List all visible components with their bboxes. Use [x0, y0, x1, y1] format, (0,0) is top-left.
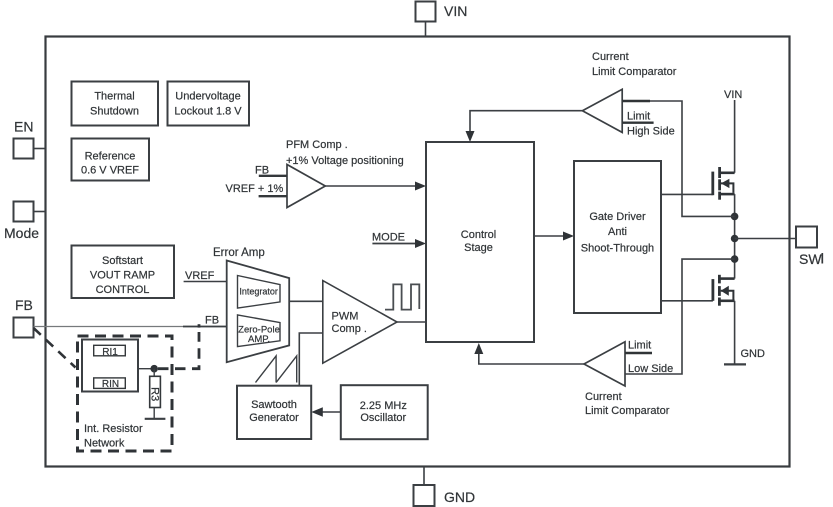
- svg-text:Network: Network: [84, 438, 125, 450]
- wire SW node to SW pin: [735, 238, 796, 240]
- svg-text:Softstart: Softstart: [102, 255, 143, 267]
- box resistor network internal: [82, 340, 138, 392]
- wire Oscillator to Sawtooth Generator: [311, 407, 341, 416]
- svg-text:Current: Current: [592, 51, 629, 63]
- wire Mode pin to boundary: [34, 211, 46, 213]
- svg-text:Anti: Anti: [608, 226, 627, 238]
- transistor low side FET: [713, 275, 735, 306]
- svg-text:Generator: Generator: [249, 412, 299, 424]
- svg-text:EN: EN: [14, 119, 33, 135]
- wire GND pin to boundary: [423, 467, 425, 486]
- svg-text:FB: FB: [205, 315, 219, 327]
- svg-text:Limit Comparator: Limit Comparator: [585, 405, 670, 417]
- svg-text:GND: GND: [741, 348, 766, 360]
- wire EN pin to boundary: [34, 148, 46, 150]
- wire gate driver to high side gate: [661, 193, 713, 195]
- node VREF+1% input of PFM comp: [226, 183, 288, 196]
- pin FB: [14, 297, 34, 338]
- block Thermal Shutdown: [72, 82, 159, 126]
- svg-text:Limit Comparator: Limit Comparator: [592, 66, 677, 78]
- svg-text:VIN: VIN: [444, 3, 467, 19]
- resistor RI1: [94, 345, 126, 358]
- node dot high-side sense: [731, 213, 739, 221]
- svg-text:Reference: Reference: [85, 151, 136, 163]
- svg-text:MODE: MODE: [372, 232, 405, 244]
- node junction dot: [150, 365, 158, 373]
- svg-text:Current: Current: [585, 391, 622, 403]
- wire low side current sense: [625, 259, 735, 374]
- IC boundary box: [46, 37, 790, 467]
- svg-text:Sawtooth: Sawtooth: [251, 399, 297, 411]
- svg-text:Lockout 1.8 V: Lockout 1.8 V: [174, 106, 242, 118]
- waveform square wave symbol: [385, 284, 419, 309]
- block Zero-Pole AMP: [238, 315, 281, 347]
- svg-text:PFM Comp .: PFM Comp .: [286, 139, 348, 151]
- ground (resistor network): [145, 418, 166, 420]
- svg-text:Thermal: Thermal: [94, 91, 134, 103]
- svg-text:Undervoltage: Undervoltage: [175, 91, 240, 103]
- pin EN: [14, 119, 34, 159]
- svg-text:Control: Control: [461, 229, 496, 241]
- svg-text:GND: GND: [444, 489, 475, 505]
- svg-text:Comp .: Comp .: [332, 323, 367, 335]
- pin Mode: [4, 202, 39, 242]
- wire VIN to high side FET drain: [734, 100, 736, 173]
- waveform sawtooth symbol: [256, 356, 297, 383]
- wire gate driver to low side gate: [661, 300, 713, 302]
- block Softstart VOUT RAMP CONTROL: [72, 246, 175, 299]
- svg-text:CONTROL: CONTROL: [96, 284, 150, 296]
- svg-text:AMP.: AMP.: [248, 334, 270, 345]
- svg-text:Error Amp: Error Amp: [213, 247, 265, 259]
- svg-text:VOUT RAMP: VOUT RAMP: [90, 270, 155, 282]
- svg-text:Gate Driver: Gate Driver: [589, 211, 646, 223]
- svg-text:Int. Resistor: Int. Resistor: [84, 423, 143, 435]
- dashed wire FB pin to resistor network: [34, 328, 76, 368]
- comparator Current Limit High Side: [582, 51, 676, 132]
- svg-text:2.25 MHz: 2.25 MHz: [360, 400, 407, 412]
- svg-text:VREF + 1%: VREF + 1%: [226, 183, 284, 195]
- wire high side current sense: [622, 101, 734, 216]
- ground GND (power stage): [724, 348, 765, 364]
- block Control Stage: [426, 142, 534, 342]
- svg-text:Oscillator: Oscillator: [360, 412, 406, 424]
- dashed wire node to FB net: [158, 332, 199, 369]
- wire low side comparator output to Control Stage: [474, 343, 584, 364]
- resistor RIN: [94, 378, 126, 390]
- node Limit input (high side): [622, 111, 675, 138]
- svg-text:VREF: VREF: [185, 270, 215, 282]
- transistor high side FET: [713, 167, 735, 200]
- pin SW: [796, 227, 822, 268]
- op-amp Error Amp: [213, 247, 289, 362]
- wire MODE to Control Stage: [372, 232, 426, 249]
- pin VIN (top): [416, 2, 468, 22]
- pin GND (bottom): [414, 485, 476, 506]
- node FB input of PFM comp: [255, 165, 287, 177]
- comparator Current Limit Low Side: [584, 342, 670, 417]
- wire low side source to ground: [734, 301, 736, 365]
- svg-text:R3: R3: [148, 387, 160, 401]
- resistor R3: [148, 369, 160, 408]
- svg-text:VIN: VIN: [724, 89, 742, 101]
- svg-text:FB: FB: [15, 297, 33, 313]
- block 2.25 MHz Oscillator: [341, 385, 428, 439]
- block Reference 0.6V VREF: [72, 139, 150, 181]
- svg-text:Stage: Stage: [464, 242, 493, 254]
- svg-text:+1% Voltage positioning: +1% Voltage positioning: [286, 155, 404, 167]
- svg-text:Limit: Limit: [627, 111, 650, 123]
- wire R3 to ground: [153, 408, 155, 419]
- block Gate Driver Anti Shoot-Through: [574, 161, 661, 313]
- svg-text:0.6 V VREF: 0.6 V VREF: [81, 165, 139, 177]
- svg-text:PWM: PWM: [332, 311, 359, 323]
- dashed box Int. Resistor Network: [78, 336, 173, 451]
- wire PWM comp output to Control Stage: [397, 321, 426, 323]
- svg-text:Integrator: Integrator: [239, 287, 278, 297]
- wire Control Stage to Gate Driver: [534, 232, 574, 241]
- wire sawtooth to PWM comp: [299, 333, 323, 385]
- svg-text:Shutdown: Shutdown: [90, 106, 139, 118]
- svg-text:Mode: Mode: [4, 225, 39, 241]
- wire network box to node: [138, 368, 154, 370]
- svg-text:SW: SW: [799, 251, 822, 267]
- comparator PWM Comp: [323, 281, 397, 364]
- svg-text:Limit: Limit: [628, 340, 651, 352]
- wire Error Amp output to PWM comp: [289, 300, 323, 302]
- comparator PFM Comp: [286, 139, 404, 208]
- wire VIN pin to boundary: [425, 22, 427, 37]
- wire PFM comp output to Control Stage: [325, 182, 426, 191]
- wire switch node vertical: [734, 194, 736, 279]
- node dot low-side sense: [731, 255, 739, 263]
- node dot SW: [731, 235, 739, 243]
- svg-text:High Side: High Side: [627, 126, 675, 138]
- svg-text:RIN: RIN: [102, 379, 119, 390]
- block Integrator: [238, 276, 281, 309]
- wire high side comparator output to Control Stage: [466, 111, 583, 142]
- wire VREF to Error Amp: [184, 270, 227, 282]
- svg-text:RI1: RI1: [102, 347, 118, 358]
- node Limit input (low side): [625, 340, 673, 375]
- block Undervoltage Lockout: [168, 82, 250, 126]
- svg-text:Shoot-Through: Shoot-Through: [581, 243, 654, 255]
- block Sawtooth Generator: [237, 386, 311, 439]
- wire FB pin to Error Amp: [34, 315, 228, 327]
